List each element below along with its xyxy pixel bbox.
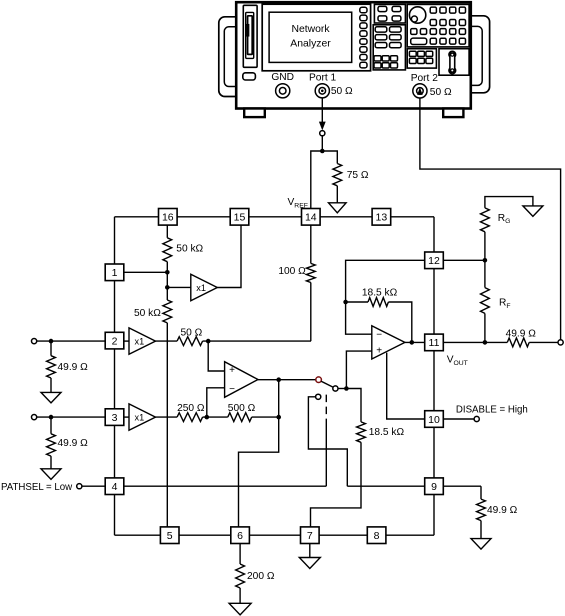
svg-text:50 Ω: 50 Ω	[331, 86, 353, 97]
output terminal circle	[558, 340, 563, 345]
svg-text:49.9 Ω: 49.9 Ω	[506, 328, 537, 339]
wire 250 ohm to minus node	[203, 416, 228, 418]
cable arrow into node	[319, 122, 326, 131]
wire connector to junction	[321, 136, 323, 151]
pin 7	[301, 527, 320, 544]
svg-text:250 Ω: 250 Ω	[177, 403, 205, 414]
node switch output junction	[344, 386, 349, 391]
ground below input pin2	[41, 392, 61, 403]
node RF Vout junction	[483, 340, 488, 345]
DISABLE terminal	[474, 416, 479, 421]
op-amp A1	[225, 362, 258, 398]
wire junction to 18.5k (lower)	[346, 389, 361, 422]
node junction at Port1 feed	[320, 149, 325, 154]
svg-text:50 kΩ: 50 kΩ	[176, 244, 203, 255]
ground below 200 ohm	[229, 603, 251, 615]
resistor 50 ohm	[177, 327, 203, 345]
resistor 250 ohm	[177, 403, 205, 421]
switch lever	[321, 381, 333, 387]
op-amp A2	[372, 326, 405, 359]
svg-text:50 kΩ: 50 kΩ	[134, 308, 161, 319]
svg-text:PATHSEL = Low: PATHSEL = Low	[1, 482, 73, 493]
node pin1 junction	[165, 270, 170, 275]
wire to ground	[480, 521, 482, 539]
svg-text:50 Ω: 50 Ω	[181, 327, 203, 338]
PATHSEL terminal	[77, 484, 82, 489]
IC outline right edge	[433, 217, 435, 535]
resistor 18.5 kOhm upper	[362, 288, 398, 307]
wire node to A1 minus input	[207, 388, 225, 417]
node buffer input junction	[165, 285, 170, 290]
wire junction to pin 14	[311, 151, 323, 209]
svg-text:11: 11	[429, 337, 440, 349]
panel E probe holder	[439, 49, 469, 75]
resistor 200 ohm	[236, 564, 275, 588]
svg-text:+: +	[376, 346, 382, 357]
svg-text:18.5 kΩ: 18.5 kΩ	[369, 427, 405, 438]
wire switch to junction	[338, 388, 346, 390]
svg-text:49.9 Ω: 49.9 Ω	[487, 505, 518, 516]
svg-text:9: 9	[431, 481, 437, 493]
resistor 49.9 ohm output	[506, 328, 537, 346]
floppy drive	[243, 5, 257, 67]
svg-text:Port 1: Port 1	[309, 72, 337, 83]
ground below 75 ohm	[329, 203, 347, 213]
wire pin 4 row	[124, 485, 326, 487]
ground below input pin3	[41, 469, 61, 480]
buffer U3 x1 (pin 3 path)	[129, 404, 156, 430]
node 49.9 tap pin3	[49, 415, 54, 420]
GND connector	[271, 72, 294, 98]
instrument body	[236, 2, 471, 108]
resistor 18.5 kOhm lower	[357, 422, 405, 442]
resistor 50 kOhm upper	[163, 238, 204, 262]
pin 16	[159, 209, 178, 226]
svg-text:−: −	[229, 384, 235, 395]
svg-text:6: 6	[237, 530, 243, 542]
node A2 output junction	[410, 340, 415, 345]
resistor 100 ohm	[278, 263, 315, 282]
wire Port 1 down	[321, 98, 323, 123]
resistor RG	[481, 208, 511, 232]
svg-text:+: +	[229, 365, 235, 376]
resistor 50 kOhm lower	[134, 300, 172, 323]
left foot	[244, 109, 265, 118]
svg-text:10: 10	[428, 414, 440, 426]
wire 49.9 to output terminal	[529, 341, 558, 343]
svg-text:8: 8	[374, 530, 380, 542]
svg-text:14: 14	[305, 212, 317, 224]
wire pin 10 to DISABLE terminal	[443, 418, 474, 420]
screen bezel	[262, 4, 370, 71]
wire chain to resistor	[166, 287, 168, 300]
wire PATHSEL to pin 4	[82, 485, 105, 487]
wire 75 ohm to ground	[336, 186, 338, 203]
wire pin 6 to 200 ohm	[239, 544, 241, 565]
pin 5	[160, 527, 179, 544]
eject button	[243, 73, 256, 80]
wire 100 ohm down to row	[310, 283, 312, 342]
node RG RF junction	[483, 258, 488, 263]
wire pin 2 to buffer B2	[124, 340, 129, 342]
wire to ground	[50, 456, 52, 469]
wire 50k chain down to pin 5	[166, 323, 168, 527]
svg-text:18.5 kΩ: 18.5 kΩ	[362, 288, 398, 299]
wire pin 7 to ground	[309, 544, 311, 558]
wire 50 ohm to corner node	[203, 340, 311, 342]
svg-text:100 Ω: 100 Ω	[278, 266, 306, 277]
wire pole2 to pin 9 row	[308, 397, 347, 486]
svg-text:7: 7	[307, 530, 313, 542]
svg-text:75 Ω: 75 Ω	[347, 170, 369, 181]
wire pin 12 to RG/RF node	[443, 259, 485, 261]
svg-text:Analyzer: Analyzer	[290, 38, 331, 49]
wire B1 output to pin 15	[217, 225, 241, 287]
svg-text:Port 2: Port 2	[411, 73, 439, 84]
wire pin 12 feedback to A2 minus	[346, 260, 425, 334]
wire chain segment	[166, 272, 168, 287]
svg-text:x1: x1	[135, 337, 145, 347]
wire junction to 75 ohm	[322, 151, 337, 164]
wire to buffer B1 input	[167, 286, 191, 288]
wire node to 18.5k	[346, 301, 368, 303]
wire A2 output to pin 11	[405, 341, 425, 343]
svg-text:500 Ω: 500 Ω	[228, 403, 256, 414]
switch pole 2 contact	[316, 394, 321, 399]
node A1 minus junction	[205, 415, 210, 420]
IC outline bottom edge	[115, 534, 435, 536]
wire switch row to pin 9 and 49.9 pulldown	[347, 485, 424, 487]
pin 14	[302, 209, 321, 226]
svg-text:−: −	[376, 329, 382, 340]
wire node to RF	[484, 260, 486, 287]
network analyzer instrument	[219, 2, 490, 117]
right handle	[456, 16, 489, 93]
wire A1 output to switch	[258, 379, 316, 381]
node 49.9 tap pin2	[49, 339, 54, 344]
wire feedback node down to pin 6	[239, 417, 279, 527]
wire 200 ohm to ground	[239, 588, 241, 603]
svg-text:13: 13	[376, 212, 388, 224]
resistor 75 ohm	[333, 164, 369, 186]
node 50ohm junction	[206, 339, 211, 344]
svg-text:16: 16	[162, 212, 174, 224]
switch common pole (red)	[316, 377, 322, 383]
wire tap down	[50, 417, 52, 434]
button panel B	[373, 25, 405, 70]
display screen	[269, 12, 352, 62]
IC outline top edge	[115, 216, 435, 218]
resistor 500 ohm	[228, 403, 256, 421]
pin 4	[105, 478, 124, 495]
wire 50k to pin1 node	[166, 262, 168, 273]
wire terminal to pin 2	[37, 340, 106, 342]
Port 1 connector	[309, 72, 353, 98]
node 18.5k feedback junction	[343, 300, 348, 305]
wire Port 2 loop to output terminal	[420, 98, 561, 340]
wire to ground	[50, 378, 52, 392]
IC outline left edge	[114, 217, 116, 535]
left handle	[219, 17, 251, 97]
pin 6	[231, 527, 250, 544]
resistor 49.9 ohm pulldown	[477, 499, 518, 520]
wire gang link to pin 4 row	[325, 420, 327, 487]
svg-text:49.9 Ω: 49.9 Ω	[58, 362, 89, 373]
wire pin14 to 100 ohm	[310, 225, 312, 263]
svg-text:50 Ω: 50 Ω	[430, 87, 452, 98]
svg-text:Network: Network	[291, 24, 330, 35]
wire 500 ohm to feedback node	[252, 416, 279, 418]
node A1 output junction	[276, 377, 281, 382]
wire junction up to A2 plus input	[346, 351, 371, 388]
resistor 49.9 ohm input pin2	[47, 356, 89, 378]
button panel C with knob	[407, 4, 469, 47]
svg-text:200 Ω: 200 Ω	[247, 571, 275, 582]
svg-text:x1: x1	[196, 283, 206, 293]
cable connector circle	[320, 131, 325, 136]
wire RG top loop to ground	[485, 197, 533, 208]
switch gang dashed link	[325, 395, 327, 420]
ground below 49.9 pulldown	[471, 539, 491, 550]
wire 18.5k to A2 output node	[388, 302, 411, 342]
wire B3 output to 250 ohm	[156, 416, 178, 418]
svg-text:DISABLE = High: DISABLE = High	[456, 405, 528, 416]
wire pin 1 to chain	[124, 271, 168, 273]
pin 13	[372, 209, 391, 226]
wire pin16 to 50k chain	[166, 225, 168, 238]
svg-text:49.9 Ω: 49.9 Ω	[58, 438, 89, 449]
svg-text:5: 5	[167, 530, 173, 542]
pin 11	[425, 334, 444, 351]
resistor RF	[481, 288, 511, 314]
input terminal pin 2	[31, 339, 36, 344]
wire output node to 500 ohm node	[278, 380, 280, 417]
pin 15	[230, 209, 249, 226]
input terminal pin 3	[31, 415, 36, 420]
svg-text:1: 1	[112, 267, 118, 279]
wire RF to Vout row	[484, 313, 486, 342]
buffer U1 x1 (pin 1 path)	[191, 274, 218, 300]
pin 12	[425, 252, 444, 269]
wire B2 output to 50 ohm	[156, 340, 178, 342]
wire 18.5k lower to pin 7	[311, 442, 362, 527]
button panel A	[374, 4, 405, 23]
svg-text:3: 3	[112, 412, 118, 424]
svg-text:12: 12	[428, 255, 440, 267]
switch throw contact	[333, 386, 338, 391]
right foot	[443, 109, 463, 118]
svg-text:GND: GND	[271, 72, 294, 83]
Port 2 connector	[411, 73, 452, 98]
node feedback junction	[276, 415, 281, 420]
wire pin 3 to buffer B3	[124, 416, 129, 418]
ground below pin 7	[299, 558, 320, 569]
svg-text:4: 4	[112, 481, 118, 493]
svg-text:2: 2	[112, 335, 118, 347]
pin 10	[425, 411, 444, 428]
wire A2 disable to pin 10	[387, 353, 425, 419]
wire terminal to pin 3	[37, 416, 106, 418]
resistor 49.9 ohm input pin3	[47, 434, 89, 456]
svg-text:x1: x1	[135, 413, 145, 423]
wire pin 11 Vout row	[443, 341, 507, 343]
svg-text:15: 15	[234, 212, 246, 224]
ground for RG	[523, 206, 543, 217]
button panel D	[407, 49, 436, 68]
wire node to A1 plus input	[208, 341, 224, 371]
wire RG to node	[484, 232, 486, 260]
buffer U2 x1 (pin 2 path)	[129, 328, 156, 354]
pin 3	[105, 409, 124, 426]
pin 9	[425, 478, 444, 495]
wire tap down	[50, 341, 52, 356]
softkeys column	[360, 7, 367, 68]
pin 2	[105, 332, 124, 349]
pin 1	[105, 264, 124, 281]
pin 8	[367, 527, 386, 544]
